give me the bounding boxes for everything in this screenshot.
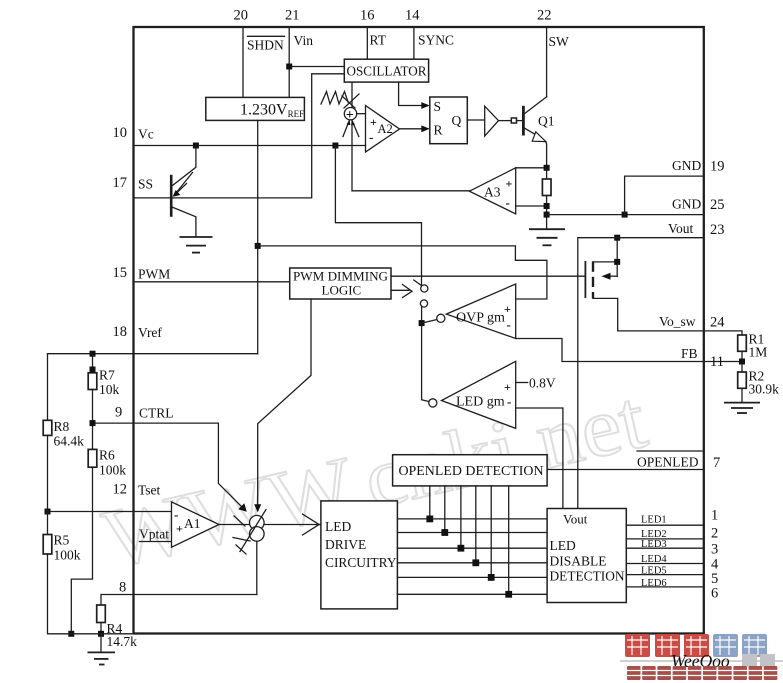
svg-text:Q: Q — [452, 113, 462, 128]
wire R1 to FB — [741, 351, 743, 372]
wire Vc branch down to dimming switch — [335, 146, 421, 286]
wire R4 ground stub — [100, 634, 102, 653]
wire multiplier to LED drive — [264, 524, 321, 526]
wire SS to oscillator — [134, 74, 345, 198]
openled detection box — [393, 455, 547, 486]
reference 1.230V box — [206, 97, 305, 120]
svg-text:LED4: LED4 — [641, 554, 667, 565]
svg-text:25: 25 — [710, 197, 725, 213]
wire sense resistor to ground — [546, 196, 548, 230]
junction Vc clamp — [193, 143, 199, 149]
MOSFET disconnect switch — [585, 238, 617, 331]
wire square to base — [517, 120, 523, 122]
svg-text:PWM: PWM — [138, 267, 170, 282]
svg-text:A2: A2 — [378, 122, 393, 136]
led disable detection box — [547, 509, 626, 603]
svg-text:DISABLE: DISABLE — [550, 554, 607, 569]
sense resistor — [546, 168, 548, 179]
svg-text:+: + — [506, 177, 513, 191]
ground below R4 — [88, 652, 116, 664]
svg-text:Tset: Tset — [138, 483, 161, 498]
svg-text:R6: R6 — [99, 448, 115, 463]
pin 15 PWM — [113, 265, 171, 282]
junction R7 top on Vref — [90, 351, 96, 357]
led2 label — [641, 526, 718, 542]
svg-text:R5: R5 — [54, 533, 70, 548]
junction Vout tap — [614, 235, 620, 241]
svg-text:24: 24 — [710, 315, 725, 331]
svg-text:15: 15 — [113, 265, 128, 281]
wire R5 to ground rail — [48, 554, 134, 634]
wire Q output to buffer — [467, 119, 484, 121]
pin Vout 23 labels — [668, 221, 725, 238]
svg-text:SYNC: SYNC — [418, 33, 454, 48]
svg-text:100k: 100k — [54, 548, 81, 563]
junction MOSFET drain — [614, 259, 620, 265]
wire buffer to Q1 base — [499, 120, 512, 122]
arrowhead CTRL — [238, 503, 247, 512]
led5 wire — [626, 574, 704, 576]
svg-text:-: - — [507, 317, 511, 332]
svg-text:PWM DIMMING: PWM DIMMING — [293, 269, 388, 284]
svg-text:OSCILLATOR: OSCILLATOR — [347, 64, 427, 79]
wire R4 to ground rail — [100, 623, 102, 634]
svg-text:+: + — [370, 115, 377, 129]
wire A3 minus input — [516, 205, 547, 207]
multiplier circle pair — [249, 515, 264, 541]
pin GND 25 labels — [672, 197, 725, 214]
junction CTRL divider — [90, 420, 96, 426]
svg-text:10k: 10k — [99, 382, 120, 397]
logo slogan dark red — [627, 666, 777, 680]
wire OVP output to FB — [516, 339, 742, 362]
led drive wire 4 — [397, 562, 547, 564]
wire GND19 — [625, 176, 704, 215]
svg-text:Vout: Vout — [563, 512, 588, 527]
wire switch to LED gm input — [422, 307, 429, 402]
svg-text:9: 9 — [115, 405, 122, 421]
svg-text:10: 10 — [113, 125, 128, 141]
resistor R2 — [738, 369, 779, 397]
LED drive circuitry box — [321, 501, 398, 609]
pin SHDN label — [247, 36, 285, 52]
svg-text:-: - — [369, 130, 373, 145]
junction sense 5 — [488, 574, 495, 581]
led2 wire — [626, 538, 704, 540]
wire A2 output to R input — [400, 128, 427, 130]
wire LED gm output — [516, 408, 563, 509]
wire A1 output to multiplier — [219, 524, 250, 526]
svg-text:Vptat: Vptat — [139, 527, 169, 542]
PWM dimming logic box — [290, 268, 391, 299]
svg-text:-: - — [507, 394, 511, 409]
arrowhead switch drive — [403, 285, 413, 298]
arrowhead PWM logic — [254, 504, 261, 512]
svg-text:A1: A1 — [184, 516, 201, 531]
svg-text:8: 8 — [119, 580, 126, 596]
svg-text:RT: RT — [370, 33, 387, 48]
svg-text:3: 3 — [711, 542, 718, 558]
led drive wire 3 — [397, 547, 547, 549]
led5 label — [641, 566, 718, 588]
svg-text:S: S — [434, 99, 442, 114]
transistor Q1 — [523, 97, 546, 168]
led4 label — [641, 554, 719, 573]
SR latch box — [430, 97, 468, 144]
resistor R7 — [88, 368, 119, 398]
svg-text:DETECTION: DETECTION — [550, 569, 625, 584]
switch blade — [414, 280, 422, 286]
pin 22 SW wire — [546, 27, 548, 97]
arrowhead R input — [421, 125, 430, 132]
ground below sense resistor — [529, 229, 565, 245]
pin 18 Vref — [113, 324, 163, 340]
wire GND25 — [547, 214, 704, 216]
wire Vptat input — [140, 541, 172, 543]
svg-text:-: - — [174, 507, 178, 522]
slope comp slashes above summing node — [342, 94, 359, 108]
svg-text:A3: A3 — [484, 185, 501, 200]
pin Vo_sw 24 labels — [659, 314, 725, 331]
svg-text:1M: 1M — [749, 345, 768, 360]
soft-start transistor — [171, 146, 196, 238]
svg-text:7: 7 — [713, 455, 720, 471]
junction vref ovp branch — [255, 243, 261, 249]
openled sense drop 4 — [475, 486, 477, 563]
svg-text:LOGIC: LOGIC — [322, 283, 362, 298]
wire R6 bottom to ground rail — [71, 467, 92, 634]
resistor R4 — [97, 605, 137, 649]
resistor R8 — [43, 419, 84, 449]
svg-text:0.8V: 0.8V — [529, 376, 556, 391]
pin 21 Vin wire — [288, 27, 290, 97]
wire Tset — [48, 511, 172, 513]
wire R8 to Tset — [47, 435, 49, 534]
anti-sat square — [511, 118, 516, 123]
wire OPENLED pin7 — [547, 469, 704, 471]
oscillator box — [344, 59, 428, 82]
logo weeqoo watermark — [671, 651, 775, 671]
led drive wire 1 — [397, 518, 547, 520]
trim slashes on multiplier — [233, 510, 266, 555]
wire CTRL to multiplier — [93, 423, 245, 509]
junction R6 ground — [68, 631, 74, 637]
svg-text:R8: R8 — [54, 419, 70, 434]
openled sense drop 1 — [429, 486, 431, 519]
pin 9 CTRL — [115, 405, 174, 421]
led6 wire — [626, 586, 704, 588]
ground below soft-start transistor — [180, 237, 213, 253]
svg-text:OPENLED: OPENLED — [637, 455, 699, 470]
pin OPENLED 7 labels — [637, 451, 720, 471]
svg-text:DRIVE: DRIVE — [325, 537, 366, 552]
led drive wire 6 — [397, 593, 547, 595]
svg-text:OVP gm: OVP gm — [456, 311, 505, 326]
logo yiditop red characters — [625, 634, 767, 657]
svg-text:Q1: Q1 — [538, 114, 555, 129]
svg-text:R7: R7 — [99, 368, 115, 383]
svg-text:SS: SS — [138, 177, 153, 192]
arrowhead LED drive input — [303, 514, 320, 535]
svg-text:16: 16 — [360, 8, 375, 24]
wire vref reference drop — [257, 120, 259, 353]
svg-text:OPENLED DETECTION: OPENLED DETECTION — [399, 463, 544, 478]
wire Vout — [578, 238, 704, 509]
svg-text:64.4k: 64.4k — [54, 434, 85, 449]
svg-text:LED: LED — [325, 519, 351, 534]
svg-text:+: + — [176, 522, 183, 536]
svg-text:+: + — [504, 380, 511, 394]
wire Vo_sw — [618, 331, 742, 335]
junction sense 1 — [426, 516, 433, 523]
buffer driver triangle — [485, 106, 499, 136]
led1 wire — [626, 524, 704, 526]
wire R7 to CTRL — [92, 390, 94, 450]
wire Vref — [48, 353, 258, 355]
svg-text:Vo_sw: Vo_sw — [659, 314, 696, 329]
svg-text:SHDN: SHDN — [247, 38, 284, 53]
wire 0.8V reference — [516, 382, 528, 384]
junction R4 ground — [98, 631, 104, 637]
svg-text:LED: LED — [550, 538, 576, 553]
logo gray rule — [620, 660, 783, 662]
svg-text:12: 12 — [113, 482, 128, 498]
op-amp A2 — [366, 106, 400, 153]
summing node circle — [344, 108, 356, 124]
led drive wire 2 — [397, 532, 547, 534]
wire PWM logic gate drive — [391, 275, 585, 277]
OVP input bubble — [437, 314, 445, 322]
junction Vin — [286, 64, 292, 70]
resistor R1 — [738, 332, 768, 360]
svg-text:17: 17 — [113, 175, 128, 191]
openled sense drop 2 — [444, 486, 446, 533]
led3 label — [641, 539, 718, 558]
pin 16 RT wire — [366, 27, 368, 59]
wire to OVP bubble — [422, 320, 437, 324]
svg-text:100k: 100k — [99, 463, 126, 478]
svg-text:18: 18 — [113, 324, 128, 340]
sawtooth ramp symbol — [321, 92, 348, 105]
junction sense 4 — [472, 559, 479, 566]
junction A3 minus — [544, 203, 550, 209]
svg-text:11: 11 — [710, 354, 724, 370]
arrowhead S input — [421, 102, 430, 109]
OVP gm amplifier — [446, 284, 515, 339]
junction Vc switch branch — [332, 143, 338, 149]
pin 14 SYNC wire — [413, 27, 415, 59]
svg-text:+: + — [504, 302, 511, 316]
svg-text:CTRL: CTRL — [139, 406, 174, 421]
wire summing node down to A3 feedback — [352, 120, 469, 191]
wire summing node to A2 plus input — [357, 113, 366, 115]
resistor R6 — [88, 448, 126, 478]
svg-text:Vc: Vc — [138, 127, 154, 142]
resistor R5 — [43, 533, 81, 563]
svg-text:Vout: Vout — [668, 221, 694, 236]
svg-text:14: 14 — [405, 8, 420, 24]
switch contact upper — [421, 285, 428, 292]
svg-text:LED gm: LED gm — [456, 395, 505, 410]
watermark www.cnki.net — [95, 373, 654, 587]
svg-text:21: 21 — [285, 8, 300, 24]
svg-text:LED6: LED6 — [641, 578, 667, 589]
wire PWM — [134, 281, 290, 283]
wire A3 plus to sense resistor top — [516, 167, 547, 169]
switch contact lower — [420, 300, 427, 307]
wire R2 to ground — [741, 388, 743, 402]
pin GND 19 labels — [672, 158, 725, 175]
svg-text:R: R — [434, 123, 443, 138]
svg-text:SW: SW — [549, 34, 570, 49]
svg-text:Vin: Vin — [294, 33, 314, 48]
junction GND25 tap — [544, 212, 550, 218]
junction GND19 drop — [622, 212, 628, 218]
svg-text:LED1: LED1 — [641, 515, 667, 526]
junction sense 6 — [505, 591, 512, 598]
svg-text:1: 1 — [711, 508, 718, 524]
openled sense drop 3 — [460, 486, 462, 548]
pin 20 SHDN wire — [242, 27, 244, 97]
svg-text:-: - — [506, 195, 510, 210]
svg-text:GND: GND — [672, 158, 701, 173]
openled sense drop 6 — [508, 486, 510, 594]
led6 label — [641, 578, 718, 602]
svg-text:22: 22 — [537, 8, 552, 24]
led3 wire — [626, 547, 704, 549]
junction sense 3 — [458, 545, 465, 552]
svg-text:30.9k: 30.9k — [749, 382, 780, 397]
wire SW collector — [546, 96, 548, 98]
svg-text:23: 23 — [710, 222, 725, 238]
IC boundary box — [134, 27, 704, 634]
wire vref to OVP plus input — [258, 246, 547, 299]
led drive wire 5 — [397, 576, 547, 578]
pin 12 Tset — [113, 482, 161, 498]
junction FB divider — [739, 359, 745, 365]
wire PWM logic switch drive — [391, 289, 409, 291]
svg-text:2: 2 — [711, 526, 718, 542]
pin FB 11 labels — [681, 346, 724, 370]
op-amp A3 — [469, 168, 515, 214]
svg-text:19: 19 — [710, 159, 725, 175]
wire PWM logic to multiplier — [258, 299, 311, 508]
svg-text:14.7k: 14.7k — [107, 634, 138, 649]
pin 17 SS — [113, 175, 154, 192]
pin 10 Vc — [113, 125, 154, 142]
ground below R2 — [724, 403, 760, 413]
LED gm amplifier — [442, 361, 516, 428]
svg-text:LED3: LED3 — [641, 539, 667, 550]
wire pin8 — [101, 595, 257, 606]
svg-text:CIRCUITRY: CIRCUITRY — [325, 555, 397, 570]
junction Q1 emitter sense — [544, 165, 550, 171]
junction OVP input tap — [419, 320, 425, 326]
led4 wire — [626, 563, 704, 565]
wire Vc — [134, 145, 366, 147]
svg-text:20: 20 — [234, 8, 249, 24]
svg-text:6: 6 — [711, 586, 718, 602]
openled sense drop 5 — [490, 486, 492, 578]
wire oscillator to summing node — [351, 82, 353, 108]
svg-text:FB: FB — [681, 346, 698, 361]
wire R7 top — [92, 354, 94, 373]
wire multiplier to pin8 — [256, 541, 258, 594]
svg-text:LED5: LED5 — [641, 566, 667, 577]
svg-text:Vref: Vref — [138, 325, 162, 340]
wire Vin to oscillator — [289, 66, 344, 68]
junction Tset divider — [45, 509, 51, 515]
wire oscillator to S input — [399, 82, 426, 105]
junction R7 cap — [90, 367, 96, 373]
wire Vref left drop to R8 — [47, 354, 49, 421]
LED gm input bubble — [429, 399, 437, 407]
junction sense 2 — [441, 529, 448, 536]
op-amp A1 — [172, 502, 220, 547]
led1 label — [641, 508, 718, 526]
svg-text:GND: GND — [672, 197, 701, 212]
trim arrows below summing node — [343, 120, 359, 137]
